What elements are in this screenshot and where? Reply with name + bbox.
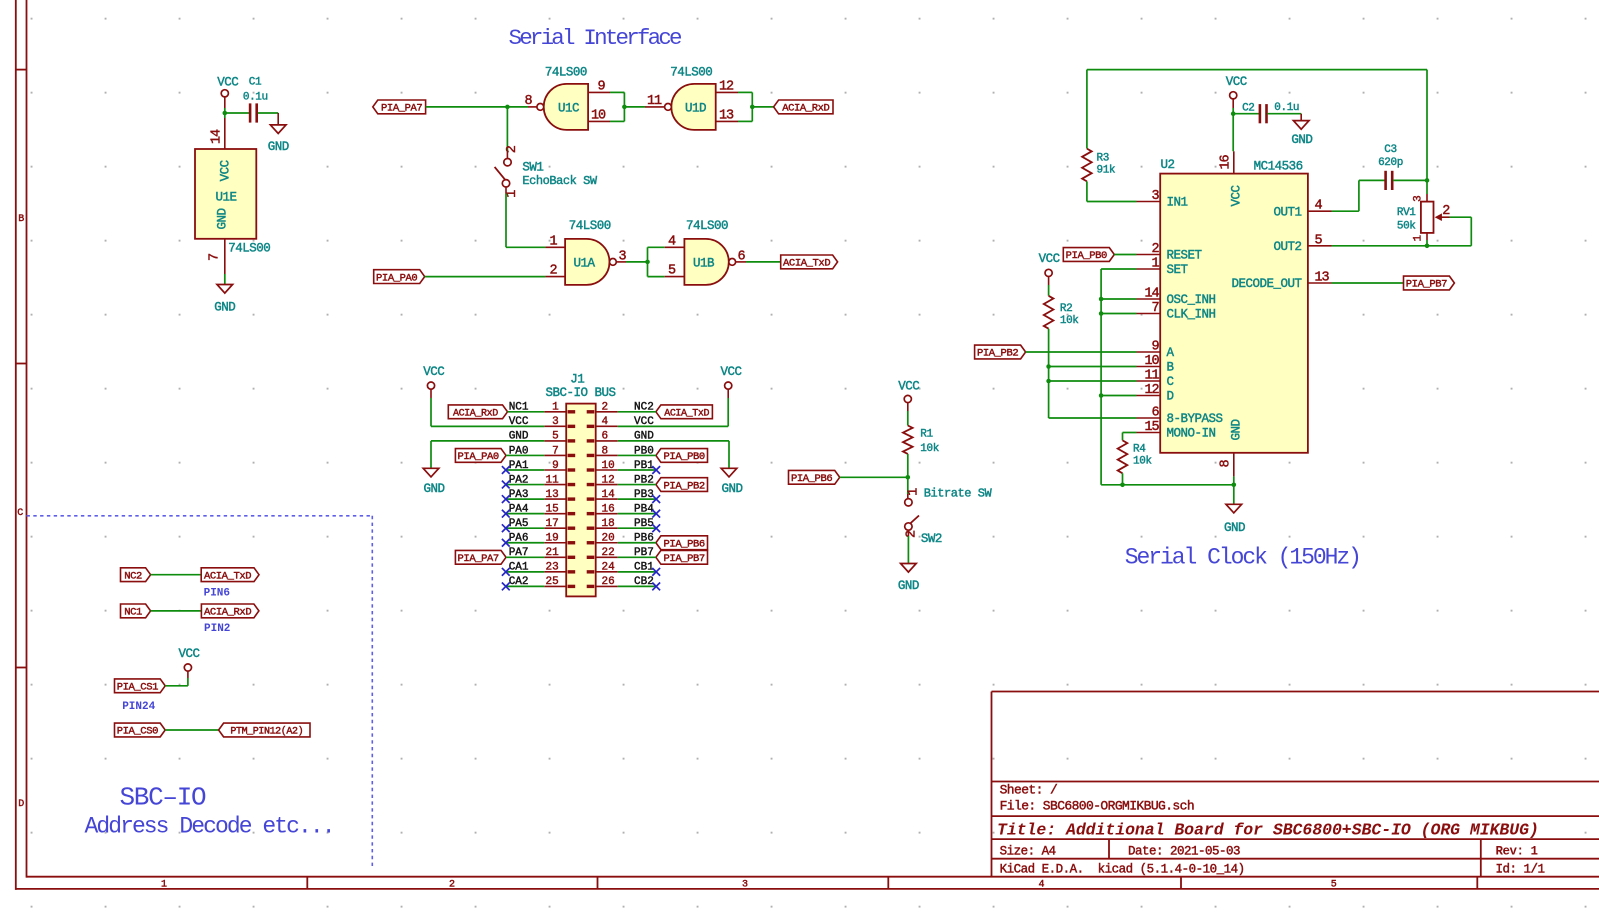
svg-text:2: 2 [449,880,455,891]
svg-text:File: SBC6800-ORGMIKBUG.sch: File: SBC6800-ORGMIKBUG.sch [1000,799,1194,814]
svg-text:1: 1 [1151,257,1159,272]
svg-text:4: 4 [1038,880,1044,891]
U2 pin 1 SET [1137,257,1189,278]
svg-text:U1C: U1C [558,101,579,115]
svg-text:8: 8 [1219,460,1234,468]
U2 pin 10 B [1137,354,1175,375]
svg-text:VCC: VCC [217,76,238,90]
svg-text:3: 3 [552,416,559,428]
wire stub J1 pin 17 [506,527,545,529]
svg-text:26: 26 [602,576,615,588]
svg-text:Address Decode etc...: Address Decode etc... [85,814,334,840]
svg-text:NC1: NC1 [124,607,142,619]
svg-text:RV1: RV1 [1397,207,1416,219]
wire stub J1 pin 10 [618,469,657,471]
pin 14 VCC of U1E [209,118,225,149]
J1 pin 10 PB1 [587,460,655,472]
svg-text:10: 10 [602,460,615,472]
wire C1 to ground [258,113,278,125]
wire stub J1 pin 25 [506,585,545,587]
svg-text:Size: A4: Size: A4 [1000,844,1056,858]
svg-text:U1D: U1D [685,101,706,115]
svg-text:VCC: VCC [423,365,444,379]
power flag VCC (R2) [1039,252,1060,285]
J1 pin 26 CB2 [587,576,654,588]
no-connect X J1 pin 16 [652,510,660,518]
svg-text:GND: GND [721,482,742,496]
svg-text:U1E: U1E [215,191,236,205]
IC U1E 74LS00 power unit body [195,149,270,255]
no-connect X J1 pin 9 [502,466,510,474]
svg-text:B: B [1167,361,1175,375]
wire VCC to C2 and U2 pin16 [1233,108,1259,151]
svg-text:Rev: 1: Rev: 1 [1496,844,1538,858]
wire stub J1 pin 11 [506,484,545,486]
wire NC2 to ACIA_TxD [151,574,202,576]
wire top loop R3 to RV1 [1087,70,1427,149]
resistor R1 10k [903,426,940,455]
switch SW2 Bitrate SW [905,486,993,545]
svg-text:13: 13 [545,489,558,501]
wire stub J1 pin 9 [506,469,545,471]
node junction pin8/GND bus [1232,483,1237,488]
global label PIA_PB6 (bitrate) [789,470,908,485]
J1 pin 21 PA7 [509,547,576,559]
svg-text:15: 15 [545,503,558,515]
svg-text:5: 5 [552,431,559,443]
svg-text:PIA_PB0: PIA_PB0 [664,451,705,463]
power flag VCC (PIA_CS1) [178,647,199,678]
ground GND (C1) [268,125,289,154]
wire SW1 to U1A input 1 [506,194,545,248]
U2 pin 2 RESET [1137,242,1203,263]
no-connect X J1 pin 17 [502,524,510,532]
J1 pin 7 PA0 [509,445,576,457]
J1 pin 20 PB6 [587,533,654,545]
svg-text:GND: GND [898,579,919,593]
svg-text:PIN6: PIN6 [204,588,230,600]
node junction R2/C [1046,379,1051,384]
wire VCC-right to J1 pin4 [618,398,729,426]
svg-text:PIA_PB0: PIA_PB0 [1066,250,1107,262]
svg-text:SBC-IO BUS: SBC-IO BUS [545,386,615,400]
nand gate U1D 74LS00 (mirrored) [645,65,716,129]
svg-text:74LS00: 74LS00 [686,219,728,233]
title block [992,692,1599,877]
svg-text:8-BYPASS: 8-BYPASS [1167,412,1223,426]
no-connect X J1 pin 14 [652,495,660,503]
svg-text:PIA_PA7: PIA_PA7 [381,103,422,115]
U2 pin 9 A [1137,340,1175,361]
svg-text:13: 13 [1315,271,1330,286]
node junction VCC/C2 [1231,111,1236,116]
svg-text:PIA_PB6: PIA_PB6 [791,473,832,485]
global label PIA_CS0 [115,723,166,738]
svg-text:23: 23 [545,562,558,574]
no-connect X J1 pin 13 [502,495,510,503]
wire stub J1 pin 16 [618,513,657,515]
svg-text:GND: GND [216,208,230,229]
svg-text:Serial Clock (150Hz): Serial Clock (150Hz) [1125,544,1360,570]
svg-text:91k: 91k [1097,165,1116,177]
wire R1 to SW2 node [907,454,909,494]
J1 pin 6 GND [587,431,655,443]
svg-text:GND: GND [423,482,444,496]
wire stub J1 pin 15 [506,513,545,515]
U2 pin 3 IN1 [1137,189,1188,210]
svg-text:GND: GND [214,300,235,314]
svg-text:PIA_PA7: PIA_PA7 [458,553,499,565]
svg-text:R3: R3 [1097,152,1109,164]
global label ACIA_RxD (serial) [774,100,833,115]
node junction SET/D [1099,393,1104,398]
svg-text:74LS00: 74LS00 [228,241,270,255]
wire U1B output to ACIA_TxD [736,261,781,263]
svg-text:1: 1 [505,190,520,198]
ground GND (SW2) [898,564,919,594]
svg-text:R1: R1 [920,429,933,441]
svg-text:Sheet: /: Sheet: / [1000,783,1058,798]
svg-text:Date: 2021-05-03: Date: 2021-05-03 [1128,844,1240,858]
svg-text:ACIA_TxD: ACIA_TxD [204,570,251,582]
svg-text:4: 4 [602,416,609,428]
svg-text:EchoBack SW: EchoBack SW [522,174,598,188]
svg-text:Title: Additional Board for SB: Title: Additional Board for SBC6800+SBC-… [997,820,1539,839]
svg-text:OUT2: OUT2 [1273,240,1301,254]
svg-text:ACIA_RxD: ACIA_RxD [204,607,251,619]
svg-text:74LS00: 74LS00 [569,219,611,233]
svg-text:U1B: U1B [693,256,715,270]
J1 pin 13 PA3 [509,489,576,501]
node junction R1/PIA_PB6/SW2 [906,475,911,480]
wire NC1 to ACIA_RxD [151,610,202,612]
svg-text:4: 4 [668,234,676,249]
svg-text:SW1: SW1 [522,160,543,174]
svg-text:A: A [1167,346,1175,360]
svg-text:0.1u: 0.1u [1274,102,1299,114]
svg-text:12: 12 [719,79,734,94]
svg-text:17: 17 [545,518,558,530]
svg-text:2: 2 [905,530,920,538]
svg-text:ACIA_RxD: ACIA_RxD [782,103,829,115]
U2 pin 5 OUT2 [1273,233,1331,254]
svg-text:Serial Interface: Serial Interface [509,25,683,51]
wire OUT1 to C3 [1332,180,1386,211]
svg-text:PIA_PB2: PIA_PB2 [664,480,705,492]
svg-text:VCC: VCC [1230,185,1244,206]
wire stub J1 pin 23 [506,571,545,573]
svg-text:10k: 10k [1133,455,1152,467]
J1 pin 24 CB1 [587,562,655,574]
ground GND (J1 right) [721,468,742,496]
svg-text:DECODE_OUT: DECODE_OUT [1231,277,1302,291]
svg-text:GND: GND [1291,133,1312,147]
ground GND (J1 left) [423,468,444,496]
no-connect X J1 pin 15 [502,510,510,518]
no-connect X J1 pin 18 [652,524,660,532]
global label NC2 [121,568,151,583]
svg-text:9: 9 [1151,340,1159,355]
switch SW1 EchoBack SW [495,145,598,197]
svg-text:Bitrate SW: Bitrate SW [924,486,993,500]
U2 pin 11 C [1137,369,1174,390]
svg-text:9: 9 [552,460,559,472]
J1 pin 8 PB0 [587,445,654,457]
svg-text:NC2: NC2 [124,570,142,582]
svg-text:R2: R2 [1060,303,1072,315]
svg-text:B: B [18,214,24,225]
wire DECODE_OUT to PIA_PB7 [1332,282,1404,284]
J1 pin 25 CA2 [509,576,576,588]
no-connect X J1 pin 10 [652,466,660,474]
svg-text:10k: 10k [1060,315,1079,327]
J1 pin 5 GND [509,431,576,443]
J1 pin 14 PB3 [587,489,654,501]
svg-text:10k: 10k [920,443,939,455]
svg-text:12: 12 [602,474,615,486]
svg-text:8: 8 [524,94,532,109]
global label PIA_PA0 (gates) [374,270,425,285]
power flag VCC (C2) [1226,75,1247,108]
node junction SET/CLK_INH [1099,311,1104,316]
global label PIA_PB2 (J1 pin12) [618,478,708,493]
svg-text:6: 6 [602,431,609,443]
svg-text:PIN2: PIN2 [204,623,230,635]
global label PIA_PB0 (J1 pin8) [618,449,708,464]
ground GND (U2) [1224,504,1245,535]
wire pin7 to ground [224,274,226,285]
svg-text:21: 21 [545,547,559,559]
svg-text:PIA_PB7: PIA_PB7 [664,553,705,565]
svg-text:C3: C3 [1384,144,1396,156]
wire stub J1 pin 18 [618,527,657,529]
svg-text:0.1u: 0.1u [243,92,268,104]
power flag VCC (U1E) [217,76,238,108]
global label PIA_PA7 [373,100,426,115]
svg-text:GND: GND [1224,521,1245,535]
svg-text:1: 1 [552,402,559,414]
svg-text:12: 12 [1144,383,1159,398]
svg-text:U2: U2 [1161,158,1175,172]
svg-text:VCC: VCC [178,647,199,661]
global label PIA_PB2 (U2 A) [975,345,1137,360]
wire U1D output to ACIA_RxD [752,106,773,108]
svg-text:5: 5 [1315,233,1323,248]
node junction U1A/U1B [645,260,650,265]
svg-text:8: 8 [602,445,609,457]
U2 pin 4 OUT1 [1273,199,1331,220]
no-connect X J1 pin 25 [502,583,510,591]
global label PIA_PB7 (J1 pin22) [618,550,708,565]
svg-text:74LS00: 74LS00 [545,65,587,79]
no-connect X J1 pin 26 [652,583,660,591]
capacitor C1 0.1u [243,76,268,122]
svg-text:C2: C2 [1242,102,1254,114]
no-connect X J1 pin 11 [502,481,510,489]
capacitor C3 620p [1378,144,1403,190]
J1 pin 17 PA5 [509,518,576,530]
svg-text:PIA_CS0: PIA_CS0 [117,726,158,738]
svg-text:SW2: SW2 [921,532,942,546]
svg-text:2: 2 [549,264,557,279]
svg-text:50k: 50k [1397,221,1416,233]
svg-text:9: 9 [597,79,605,94]
svg-text:4: 4 [1315,199,1323,214]
svg-text:13: 13 [719,108,734,123]
connector J1 SBC-IO BUS body [545,373,615,597]
svg-text:PIA_PB7: PIA_PB7 [1406,279,1447,291]
svg-text:MONO-IN: MONO-IN [1167,427,1216,441]
svg-text:1: 1 [906,488,921,496]
node junction R2/B [1046,364,1051,369]
note text SBC-IO [120,783,207,813]
svg-text:VCC: VCC [1039,252,1060,266]
wire RV1 wiper to OUT2 [1332,217,1472,246]
svg-text:2: 2 [1151,242,1159,257]
no-connect X J1 pin 23 [502,568,510,576]
svg-text:J1: J1 [570,373,584,387]
node junction VCC/C1 [223,111,228,116]
wire R3 to U2 IN1 [1087,181,1137,201]
J1 pin 11 PA2 [509,474,576,486]
svg-text:PIA_PA0: PIA_PA0 [376,272,417,284]
U2 pin 6 8-BYPASS [1137,406,1223,427]
wire C3 to RV1 node [1393,70,1427,194]
wire stub J1 pin 24 [618,571,657,573]
global label PIA_PA7 (J1 pin21) [455,550,544,565]
global label ACIA_TxD (J1 pin2) [618,405,713,420]
svg-text:14: 14 [1144,287,1159,302]
global label PIA_PB0 (U2 RESET) [1063,248,1136,263]
wire SET/OSC_INH/CLK_INH/D tie [1101,269,1136,485]
svg-text:3: 3 [1151,189,1159,204]
global label ACIA_TxD (serial) [781,255,838,270]
svg-text:20: 20 [602,533,615,545]
wire SW2 to ground [907,536,909,564]
J1 pin 18 PB5 [587,518,654,530]
svg-text:SET: SET [1167,263,1189,277]
wire VCC to R1 [907,411,909,426]
J1 pin 23 CA1 [509,562,576,574]
svg-text:7: 7 [1151,301,1159,316]
global label PIA_PB7 (U2) [1404,276,1455,291]
U2 pin 12 D [1137,383,1174,404]
note text PIN24 [122,701,155,713]
svg-text:22: 22 [602,547,615,559]
svg-text:CLK_INH: CLK_INH [1167,308,1216,322]
J1 pin 2 NC2 [587,402,654,414]
U2 pin 13 DECODE_OUT [1231,271,1331,292]
svg-text:6: 6 [1151,406,1159,421]
svg-text:MC14536: MC14536 [1254,159,1303,173]
node junction PIA_PA7/SW1 [505,105,510,110]
svg-text:VCC: VCC [898,379,919,393]
svg-text:ACIA_TxD: ACIA_TxD [664,409,709,420]
no-connect X J1 pin 24 [652,568,660,576]
ground GND (C2) [1291,121,1312,148]
svg-text:2: 2 [602,402,609,414]
wire U1C to U1D [624,106,645,108]
ground GND (U1E) [214,285,235,315]
svg-text:10: 10 [591,108,606,123]
wire PIA_CS0 to PTM_PIN12 [165,729,218,731]
pin 7 GND of U1E [207,239,225,274]
svg-text:PTM_PIN12(A2): PTM_PIN12(A2) [230,726,303,738]
global label PIA_PB6 (J1 pin20) [618,536,708,551]
IC U2 MC14536 body [1160,158,1308,453]
global label NC1 [121,604,151,619]
wire VCC to R2 [1048,285,1050,296]
wire VCC to C1 and pin 14 [225,108,250,118]
note text Serial Clock (150Hz) [1125,544,1360,570]
svg-text:C1: C1 [249,76,262,88]
note text Address Decode etc... [85,814,334,840]
node junction SET/OSC_INH [1099,297,1104,302]
svg-text:24: 24 [602,562,616,574]
J1 pin 15 PA4 [509,503,576,515]
J1 pin 4 VCC [587,416,655,428]
no-connect X J1 pin 19 [502,539,510,547]
wire bottom GND bus [1101,484,1234,486]
power flag VCC (J1 left) [423,365,444,398]
wire J1 pin6 to ground-right [618,441,729,468]
pin 12 and pin 13 of U1D tied [716,79,753,123]
wire PIA_PA7 to U1C input [426,106,528,108]
node junction C3/RV1 [1425,178,1430,183]
note text Serial Interface [509,25,683,51]
power flag VCC (J1 right) [720,365,741,398]
global label ACIA_TxD (decode) [201,568,259,583]
svg-text:11: 11 [647,94,662,109]
pin 9 and pin 10 of U1C tied [588,79,624,123]
J1 pin 9 PA1 [509,460,576,472]
wire U1A output to U1B inputs [616,247,664,276]
nand gate U1B 74LS00 [665,219,746,285]
U2 pin 16 VCC [1219,151,1234,173]
svg-text:14: 14 [209,129,224,144]
dashed region outline SBC-IO section [27,516,373,869]
wire stub J1 pin 26 [618,585,657,587]
global label PTM_PIN12(A2) [219,723,310,738]
U2 pin 7 CLK_INH [1137,301,1216,322]
wire U2 pin8 to ground [1233,476,1235,504]
svg-text:10: 10 [1144,354,1159,369]
svg-text:VCC: VCC [720,365,741,379]
svg-text:5: 5 [668,264,676,279]
svg-text:ACIA_RxD: ACIA_RxD [453,409,498,420]
U2 pin 8 GND [1219,453,1234,477]
svg-text:16: 16 [602,503,615,515]
svg-text:D: D [18,799,24,810]
note text PIN6 [204,588,230,600]
wire stub J1 pin 19 [506,542,545,544]
node junction R4/GND bus [1120,483,1125,488]
node junction RV1/OUT2 [1425,244,1430,249]
J1 pin 19 PA6 [509,533,576,545]
svg-text:RESET: RESET [1167,249,1203,263]
svg-text:11: 11 [1144,369,1159,384]
svg-text:D: D [1167,390,1174,404]
svg-text:GND: GND [268,140,289,154]
U2 pin 15 MONO-IN [1137,420,1216,441]
power flag VCC (R1) [898,379,919,411]
svg-text:PIA_PA0: PIA_PA0 [458,451,499,463]
svg-text:PIN24: PIN24 [122,701,155,713]
global label ACIA_RxD (J1 pin1) [448,405,544,420]
J1 pin 3 VCC [509,416,576,428]
svg-text:VCC: VCC [219,160,233,181]
svg-text:1: 1 [1412,235,1424,242]
